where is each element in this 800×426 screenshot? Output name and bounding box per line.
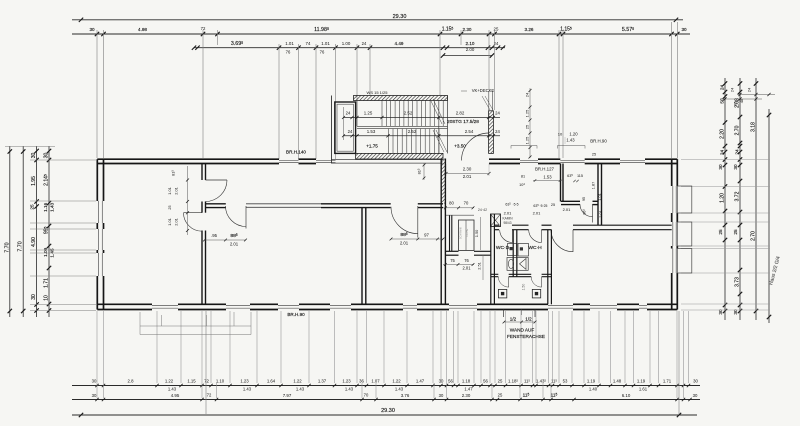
svg-text:25: 25 bbox=[718, 229, 723, 235]
svg-text:1.22: 1.22 bbox=[392, 379, 401, 384]
svg-text:2.01: 2.01 bbox=[463, 266, 472, 271]
svg-text:30: 30 bbox=[733, 164, 738, 170]
svg-text:30: 30 bbox=[439, 393, 444, 398]
svg-text:BR.H.127: BR.H.127 bbox=[535, 167, 555, 172]
outer wall right with windows bbox=[671, 159, 673, 186]
svg-text:53: 53 bbox=[563, 379, 568, 384]
svg-text:29.30: 29.30 bbox=[393, 14, 407, 20]
svg-text:24: 24 bbox=[730, 87, 735, 92]
left chain 3 bbox=[36, 146, 38, 317]
window bottom wall bbox=[330, 304, 351, 306]
svg-text:WC·H: WC·H bbox=[528, 245, 542, 251]
dim 2.51 rotated bbox=[482, 255, 484, 280]
right witness lines bbox=[681, 159, 770, 161]
svg-text:2.54: 2.54 bbox=[465, 129, 474, 134]
door D1 in P1 bbox=[206, 179, 228, 181]
svg-text:4.90: 4.90 bbox=[31, 237, 37, 247]
svg-text:2.8: 2.8 bbox=[128, 379, 135, 384]
svg-text:4.95: 4.95 bbox=[171, 393, 180, 398]
washbasin WC-H bbox=[518, 244, 529, 257]
svg-text:BR.H.90: BR.H.90 bbox=[287, 312, 305, 317]
window top wall 2 bbox=[316, 159, 336, 161]
window bottom wall bbox=[548, 304, 573, 306]
svg-text:75: 75 bbox=[450, 258, 455, 263]
outer wall bottom with windows bbox=[97, 303, 152, 305]
svg-text:1.10: 1.10 bbox=[216, 379, 225, 384]
dim line L3 top windows bbox=[194, 47, 505, 49]
svg-text:1.37: 1.37 bbox=[318, 379, 327, 384]
porch lines below wall bbox=[503, 310, 505, 318]
svg-text:1.01: 1.01 bbox=[597, 193, 602, 201]
svg-text:1.71: 1.71 bbox=[44, 278, 50, 288]
window right wall with outer box bbox=[672, 249, 674, 274]
svg-text:1/2: 1/2 bbox=[525, 317, 532, 322]
svg-text:2.01: 2.01 bbox=[504, 211, 513, 216]
svg-text:2.01: 2.01 bbox=[400, 241, 409, 246]
svg-text:7.97: 7.97 bbox=[283, 393, 292, 398]
svg-text:30: 30 bbox=[89, 27, 95, 32]
WC-H right wall bbox=[547, 230, 549, 305]
svg-text:72: 72 bbox=[204, 379, 209, 384]
svg-text:1.25: 1.25 bbox=[524, 109, 529, 118]
svg-text:29.30: 29.30 bbox=[381, 408, 395, 414]
window dim bracket 1.20 1.43 bbox=[558, 145, 586, 147]
dim line L4 short bbox=[443, 55, 492, 57]
svg-text:24·42: 24·42 bbox=[478, 208, 487, 212]
svg-text:81: 81 bbox=[521, 175, 525, 179]
svg-text:1.71: 1.71 bbox=[663, 379, 672, 384]
window top wall 3 bbox=[520, 159, 538, 161]
right of stair vertical dim x530 bbox=[529, 88, 531, 158]
svg-text:FENSTERACHSE: FENSTERACHSE bbox=[507, 334, 545, 339]
svg-text:11.985: 11.985 bbox=[314, 27, 329, 33]
svg-text:2.00: 2.00 bbox=[466, 47, 475, 52]
svg-text:2.51: 2.51 bbox=[477, 262, 482, 270]
stair landing door arc bbox=[462, 133, 490, 161]
svg-text:1/2: 1/2 bbox=[510, 317, 517, 322]
svg-text:WAND AUF: WAND AUF bbox=[510, 328, 535, 333]
window bottom wall bbox=[639, 304, 647, 306]
svg-text:24: 24 bbox=[495, 129, 500, 134]
svg-text:24: 24 bbox=[524, 92, 529, 97]
svg-text:1.43: 1.43 bbox=[566, 137, 575, 142]
svg-text:1.23: 1.23 bbox=[240, 379, 249, 384]
svg-text:115: 115 bbox=[577, 174, 583, 178]
closet with shelf bbox=[459, 220, 475, 251]
door opening dim 2.30 bbox=[446, 173, 489, 175]
svg-text:+1.75: +1.75 bbox=[366, 144, 378, 149]
svg-text:1.22: 1.22 bbox=[165, 379, 174, 384]
svg-text:1.01: 1.01 bbox=[321, 41, 330, 46]
svg-text:2.01: 2.01 bbox=[230, 242, 239, 247]
svg-text:1.53: 1.53 bbox=[367, 129, 376, 134]
svg-text:1.48: 1.48 bbox=[613, 379, 622, 384]
svg-text:1.43: 1.43 bbox=[49, 202, 54, 212]
svg-text:·5·5: ·5·5 bbox=[512, 203, 518, 207]
vestibule wall H1 bbox=[561, 200, 580, 202]
svg-text:2.01: 2.01 bbox=[563, 207, 572, 212]
door D2 in P1 bbox=[184, 212, 203, 214]
dim line B2 bottom bbox=[72, 399, 700, 401]
svg-text:1.87: 1.87 bbox=[592, 182, 596, 189]
wall W2 hall right bbox=[440, 159, 442, 305]
svg-text:1.64: 1.64 bbox=[267, 379, 276, 384]
witness lines top bbox=[96, 30, 98, 158]
svg-text:30: 30 bbox=[92, 379, 97, 384]
outer wall top-left section bbox=[97, 158, 279, 160]
svg-text:VK+DECKE: VK+DECKE bbox=[472, 88, 495, 93]
svg-text:2.52: 2.52 bbox=[408, 129, 417, 134]
dim 80 70 corridor bbox=[443, 207, 474, 209]
svg-text:95: 95 bbox=[582, 197, 586, 201]
svg-text:1.23: 1.23 bbox=[342, 379, 351, 384]
svg-text:2.30: 2.30 bbox=[462, 393, 471, 398]
right chain 2 bbox=[739, 78, 741, 320]
svg-text:76: 76 bbox=[286, 50, 291, 55]
window top wall 1 bbox=[279, 159, 299, 161]
stair left small dim line bbox=[343, 107, 345, 140]
top wall thin under stair bay bbox=[331, 159, 443, 161]
stair bay west window box bbox=[335, 102, 356, 153]
dim line L2 top bbox=[72, 33, 690, 35]
dim line B1 bottom bbox=[72, 385, 700, 387]
window right wall with outer box bbox=[672, 186, 674, 213]
svg-text:3.73: 3.73 bbox=[735, 277, 741, 287]
window bottom wall bbox=[152, 304, 178, 306]
svg-text:24: 24 bbox=[720, 85, 725, 91]
svg-text:2.52: 2.52 bbox=[404, 111, 413, 116]
svg-text:24: 24 bbox=[747, 87, 752, 92]
svg-text:2.30: 2.30 bbox=[463, 167, 472, 172]
svg-text:30: 30 bbox=[439, 379, 444, 384]
partition P2 vertical bbox=[361, 208, 363, 305]
svg-text:2.10: 2.10 bbox=[466, 41, 475, 46]
witness lines bottom bbox=[96, 311, 98, 383]
svg-text:25: 25 bbox=[733, 229, 738, 235]
svg-text:1.47: 1.47 bbox=[464, 387, 473, 392]
svg-text:1.01: 1.01 bbox=[167, 187, 172, 195]
svg-text:1.43: 1.43 bbox=[345, 387, 354, 392]
svg-text:24: 24 bbox=[346, 111, 351, 116]
svg-text:2.30: 2.30 bbox=[463, 27, 472, 32]
window left wall bbox=[97, 201, 99, 223]
svg-text:1.43: 1.43 bbox=[168, 387, 177, 392]
right chains top connectors bbox=[737, 94, 775, 96]
corridor wall W1 bbox=[206, 203, 226, 205]
stair lower flight treads bbox=[387, 129, 389, 154]
door D4 in W1 bbox=[417, 206, 419, 238]
svg-text:1.18: 1.18 bbox=[462, 379, 471, 384]
stair east wall thin upper bbox=[488, 91, 490, 111]
svg-text:30: 30 bbox=[693, 379, 698, 384]
window top wall 4 bbox=[560, 159, 584, 161]
svg-text:25: 25 bbox=[551, 203, 555, 207]
svg-text:10: 10 bbox=[558, 131, 563, 136]
window right wall with outer box bbox=[672, 222, 674, 246]
svg-text:1.50: 1.50 bbox=[522, 284, 526, 291]
WC-D left wall bbox=[490, 214, 492, 304]
dim 81.5 under stair bbox=[423, 163, 425, 180]
svg-text:30: 30 bbox=[92, 393, 97, 398]
dim labels door D4 bbox=[391, 238, 443, 240]
door WC-H bbox=[541, 230, 543, 243]
stair upper flight treads bbox=[381, 101, 383, 127]
svg-text:2.01: 2.01 bbox=[533, 211, 542, 216]
stair east wall hatched bbox=[489, 111, 494, 154]
left chain total 7.70 outer bbox=[9, 146, 11, 317]
svg-text:1.15: 1.15 bbox=[187, 379, 196, 384]
svg-text:56: 56 bbox=[448, 379, 453, 384]
svg-text:25: 25 bbox=[30, 204, 35, 210]
WC mid horizontal wall bbox=[491, 273, 499, 275]
svg-text:24: 24 bbox=[495, 111, 500, 116]
stair west wall stub bbox=[331, 96, 333, 164]
axis bracket lines below wall left bbox=[140, 325, 251, 327]
svg-text:1.61: 1.61 bbox=[639, 387, 648, 392]
svg-text:2.01: 2.01 bbox=[174, 187, 179, 195]
svg-text:2.01: 2.01 bbox=[174, 218, 179, 226]
WC small wall fixtures bottom bbox=[498, 289, 506, 298]
WC corridor south wall W3 bbox=[494, 224, 499, 226]
stair break diagonals bbox=[430, 99, 442, 124]
door D5 big room bbox=[572, 230, 574, 252]
svg-text:1.01: 1.01 bbox=[285, 41, 294, 46]
door D3 in W1 bbox=[245, 206, 247, 229]
niche left wall bbox=[449, 216, 451, 252]
svg-text:25: 25 bbox=[168, 205, 172, 209]
svg-text:3.72: 3.72 bbox=[735, 191, 741, 201]
svg-text:2.01: 2.01 bbox=[463, 174, 472, 179]
dim line B3 total bottom bbox=[72, 414, 697, 416]
rotated dims at P1 doors bbox=[187, 166, 189, 235]
stair well edge lines bbox=[438, 101, 440, 154]
svg-text:1.40: 1.40 bbox=[589, 387, 598, 392]
window left wall bbox=[97, 253, 99, 276]
svg-text:4.98: 4.98 bbox=[138, 27, 147, 32]
svg-text:BR.H.140: BR.H.140 bbox=[286, 150, 306, 155]
svg-text:1.16: 1.16 bbox=[43, 202, 48, 212]
svg-text:KAMIN: KAMIN bbox=[502, 217, 513, 221]
svg-text:24: 24 bbox=[348, 129, 353, 134]
svg-text:98/43: 98/43 bbox=[504, 221, 512, 225]
window bottom wall bbox=[278, 304, 299, 306]
window bottom wall bbox=[403, 304, 417, 306]
svg-text:2.70: 2.70 bbox=[751, 231, 757, 241]
svg-text:36: 36 bbox=[359, 379, 364, 384]
outer wall top-right section bbox=[489, 158, 520, 160]
right chain 3 bbox=[755, 78, 757, 320]
dim line L1 total 29.30 top bbox=[72, 19, 683, 21]
svg-text:2.01: 2.01 bbox=[598, 210, 603, 218]
svg-text:1.95: 1.95 bbox=[31, 176, 37, 186]
dim labels door D3 bbox=[205, 239, 247, 241]
stair south wall hatched bbox=[356, 153, 443, 159]
svg-text:25: 25 bbox=[524, 124, 529, 129]
svg-text:WC·D: WC·D bbox=[496, 245, 510, 251]
svg-text:24: 24 bbox=[735, 149, 740, 155]
svg-text:32: 32 bbox=[733, 101, 738, 106]
svg-text:25: 25 bbox=[498, 379, 503, 384]
svg-text:WS 15 1/25: WS 15 1/25 bbox=[367, 90, 389, 95]
svg-text:BR.H.90: BR.H.90 bbox=[590, 139, 607, 144]
svg-text:1.00: 1.00 bbox=[342, 41, 351, 46]
svg-text:7.70: 7.70 bbox=[18, 241, 24, 251]
svg-text:3.18: 3.18 bbox=[751, 122, 757, 132]
svg-text:1.19: 1.19 bbox=[637, 379, 646, 384]
WC partition mid bbox=[512, 230, 514, 277]
svg-text:2.20: 2.20 bbox=[720, 129, 726, 139]
svg-text:56: 56 bbox=[483, 379, 488, 384]
svg-text:1.20: 1.20 bbox=[720, 193, 726, 203]
svg-text:1.50: 1.50 bbox=[474, 229, 479, 237]
svg-text:25: 25 bbox=[498, 393, 503, 398]
dim 1.50 rotated closet bbox=[480, 217, 482, 250]
window left wall bbox=[97, 229, 99, 250]
left chain 4 bbox=[48, 146, 50, 317]
toilet WC-D bbox=[507, 258, 517, 271]
svg-text:1.43: 1.43 bbox=[395, 387, 404, 392]
svg-text:70: 70 bbox=[464, 201, 469, 206]
svg-text:10: 10 bbox=[44, 295, 50, 301]
stair mid rails bbox=[357, 125, 448, 127]
WC lower door D bbox=[508, 277, 510, 287]
door WC-D bbox=[512, 230, 514, 243]
svg-text:7.70: 7.70 bbox=[4, 242, 10, 252]
washbasin WC-D bbox=[508, 244, 517, 256]
svg-text:24: 24 bbox=[362, 41, 367, 46]
outer wall left with windows bbox=[96, 159, 98, 201]
WC lower door H bbox=[541, 277, 543, 287]
svg-text:TRUHE: TRUHE bbox=[466, 228, 469, 237]
svg-text:72: 72 bbox=[207, 393, 212, 398]
right chain 1 bbox=[724, 78, 726, 320]
partition P1 vertical left room bbox=[201, 164, 203, 181]
window bottom wall bbox=[226, 304, 250, 306]
svg-text:30: 30 bbox=[693, 393, 698, 398]
svg-text:20STG 17.5/28: 20STG 17.5/28 bbox=[447, 119, 479, 124]
niche door dims 75 76 bbox=[443, 264, 474, 266]
svg-text:SCHRANK: SCHRANK bbox=[460, 227, 463, 240]
stair NE break diagonals bbox=[482, 96, 490, 110]
door D6 vestibule bbox=[592, 204, 594, 223]
svg-text:3.26: 3.26 bbox=[525, 27, 534, 32]
toilet WC-H bbox=[517, 258, 528, 271]
vestibule wall V1 bbox=[560, 164, 562, 202]
svg-text:48: 48 bbox=[739, 98, 744, 103]
window axis bracket left bbox=[511, 145, 537, 147]
svg-text:30: 30 bbox=[681, 27, 687, 32]
window top wall 5 bbox=[620, 159, 645, 161]
svg-text:.95: .95 bbox=[211, 233, 218, 238]
svg-text:·5·25: ·5·25 bbox=[540, 204, 548, 208]
svg-text:3.76: 3.76 bbox=[401, 393, 410, 398]
window bottom wall bbox=[590, 304, 617, 306]
svg-text:1.19: 1.19 bbox=[587, 379, 596, 384]
svg-text:30: 30 bbox=[44, 153, 50, 159]
svg-text:4.49: 4.49 bbox=[395, 41, 404, 46]
right chain 4 outer bbox=[768, 109, 770, 323]
left witness lines bbox=[30, 159, 96, 161]
svg-text:6.10: 6.10 bbox=[622, 393, 631, 398]
svg-text:24: 24 bbox=[720, 150, 725, 156]
svg-text:1.01: 1.01 bbox=[167, 218, 172, 226]
svg-text:30: 30 bbox=[31, 153, 37, 159]
svg-text:1.20: 1.20 bbox=[569, 131, 578, 136]
svg-text:76: 76 bbox=[320, 50, 325, 55]
svg-text:76: 76 bbox=[464, 258, 469, 263]
svg-text:2.70: 2.70 bbox=[735, 125, 741, 135]
svg-text:74: 74 bbox=[306, 41, 311, 46]
svg-text:70: 70 bbox=[364, 393, 369, 398]
window bottom wall bbox=[449, 304, 477, 306]
chimney KAMIN bbox=[491, 214, 501, 227]
svg-text:25: 25 bbox=[592, 153, 596, 157]
svg-text:1.07: 1.07 bbox=[371, 379, 380, 384]
svg-text:1.22: 1.22 bbox=[293, 379, 302, 384]
stair dim row 2 bbox=[344, 135, 501, 137]
partition P3 right rooms bbox=[597, 164, 599, 226]
svg-text:1.25: 1.25 bbox=[524, 136, 529, 145]
niche top header line bbox=[446, 214, 474, 216]
svg-text:97: 97 bbox=[424, 233, 429, 238]
svg-text:72: 72 bbox=[201, 26, 206, 31]
svg-text:2.82: 2.82 bbox=[456, 111, 465, 116]
svg-text:1.47: 1.47 bbox=[416, 379, 425, 384]
svg-text:80: 80 bbox=[449, 201, 454, 206]
svg-text:1.43: 1.43 bbox=[296, 387, 305, 392]
wall segment below closet bbox=[446, 250, 459, 252]
half dims porch bbox=[504, 321, 535, 323]
svg-text:1.09: 1.09 bbox=[43, 247, 48, 257]
left chain total 7.70 inner bbox=[22, 146, 24, 317]
svg-text:30: 30 bbox=[31, 294, 37, 300]
stair dim row 1 bbox=[344, 117, 501, 119]
svg-text:1.43: 1.43 bbox=[243, 387, 252, 392]
svg-text:1.53: 1.53 bbox=[543, 175, 552, 180]
svg-text:1.25: 1.25 bbox=[364, 111, 373, 116]
svg-text:30: 30 bbox=[718, 164, 723, 170]
